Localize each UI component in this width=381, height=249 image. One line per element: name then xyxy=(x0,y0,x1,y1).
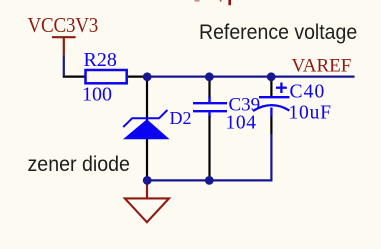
svg-text:VCC3V3: VCC3V3 xyxy=(28,14,99,37)
ground stem xyxy=(146,181,148,198)
wire main bus to VAREF (navy) xyxy=(147,75,355,77)
junction node 3 xyxy=(267,72,276,81)
svg-text:D2: D2 xyxy=(170,108,192,128)
wire C39 branch top (black) xyxy=(208,77,210,98)
wire C40 branch top (black) xyxy=(270,77,272,98)
wire VCC vertical (navy) xyxy=(63,56,65,77)
wire resistor right to node (black) xyxy=(128,75,147,77)
wire C40 branch bottom (black then navy) xyxy=(270,117,272,135)
junction node 2 xyxy=(205,72,214,81)
resistor R28 xyxy=(86,70,127,83)
wire to resistor left (black) xyxy=(63,75,85,77)
svg-text:zener diode: zener diode xyxy=(28,152,130,176)
svg-text:Reference voltage: Reference voltage xyxy=(199,21,357,44)
svg-text:R28: R28 xyxy=(84,49,117,71)
svg-text:100: 100 xyxy=(82,83,112,105)
cropped red text fragment top edge xyxy=(195,0,232,5)
svg-text:C40: C40 xyxy=(290,82,326,103)
capacitor C39 xyxy=(193,97,227,118)
junction bottom node 2 xyxy=(205,176,214,185)
svg-text:10uF: 10uF xyxy=(289,102,332,123)
svg-text:VAREF: VAREF xyxy=(292,56,352,77)
power port VCC3V3 bar symbol xyxy=(52,37,76,55)
wire C39 branch bottom (black) xyxy=(208,117,210,181)
junction node 1 xyxy=(143,72,152,81)
ground symbol xyxy=(125,198,169,222)
svg-text:104: 104 xyxy=(226,113,257,134)
wire zener branch vertical (black) xyxy=(146,77,148,180)
capacitor C40 (polarized) xyxy=(253,83,289,118)
junction bottom node 1 xyxy=(143,176,152,185)
zener diode D2 xyxy=(123,110,170,139)
wire bottom bus (navy) xyxy=(147,179,273,181)
